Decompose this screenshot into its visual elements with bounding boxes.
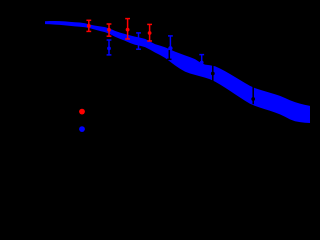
red data point R3	[125, 19, 130, 39]
blue data point B2	[136, 33, 141, 49]
legend marker red	[79, 109, 85, 115]
red data point R4	[147, 24, 152, 41]
black data point K1 (visible over band)	[211, 64, 215, 82]
blue data point B3	[168, 36, 173, 58]
blue data point B1	[107, 40, 112, 55]
blue data point B4	[199, 55, 204, 71]
red data point R2	[107, 24, 112, 36]
legend marker blue	[79, 126, 85, 132]
black data point K2 (visible over band)	[251, 86, 255, 104]
red data point R1	[86, 20, 91, 31]
theory band (blue)	[45, 21, 310, 123]
black data point K0 (bar visible cutting band below point B3)	[167, 50, 171, 59]
